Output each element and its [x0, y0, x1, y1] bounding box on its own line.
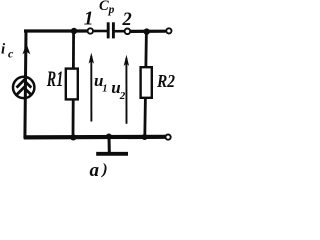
wire bottom horizontal: [24, 135, 166, 140]
svg-text:2: 2: [122, 10, 132, 30]
svg-text:): ): [100, 161, 107, 178]
svg-text:u1: u1: [94, 71, 108, 95]
junction node above R1: [71, 28, 77, 34]
svg-text:а: а: [90, 160, 100, 179]
wire top horizontal left: [24, 29, 87, 32]
wire R2 branch vertical: [145, 32, 147, 138]
wire left vertical: [25, 30, 26, 139]
capacitor Cp left plate: [107, 22, 110, 38]
resistor R1 body: [66, 69, 78, 100]
voltage arrow u2: [125, 58, 127, 124]
capacitor Cp right plate: [112, 22, 115, 38]
wire capacitor right lead: [115, 30, 124, 33]
junction node below R2: [142, 134, 148, 140]
svg-text:ic: ic: [1, 42, 14, 61]
terminal node 1: [88, 28, 93, 33]
current source chevron lower: [17, 88, 32, 95]
junction node below R1: [70, 134, 76, 140]
svg-text:R2: R2: [156, 71, 175, 91]
junction node ground: [106, 134, 112, 140]
wire capacitor left lead: [94, 30, 107, 33]
resistor R2 body: [141, 67, 152, 98]
terminal bottom right: [166, 135, 171, 140]
svg-text:1: 1: [84, 8, 94, 29]
ground bar: [96, 152, 128, 156]
wire R1 branch vertical: [72, 31, 75, 137]
terminal node 2: [125, 29, 131, 35]
ground stub: [108, 137, 111, 153]
junction node above R2: [144, 28, 150, 34]
current arrow ic head: [22, 44, 30, 54]
current source circle: [13, 77, 34, 98]
svg-text:u2: u2: [111, 78, 125, 102]
voltage arrow u1: [90, 56, 92, 122]
svg-text:Cp: Cp: [99, 0, 115, 16]
terminal top right: [166, 28, 171, 33]
wire top horizontal right: [131, 30, 166, 33]
current source chevron upper: [17, 80, 32, 87]
svg-text:R1: R1: [46, 66, 63, 91]
